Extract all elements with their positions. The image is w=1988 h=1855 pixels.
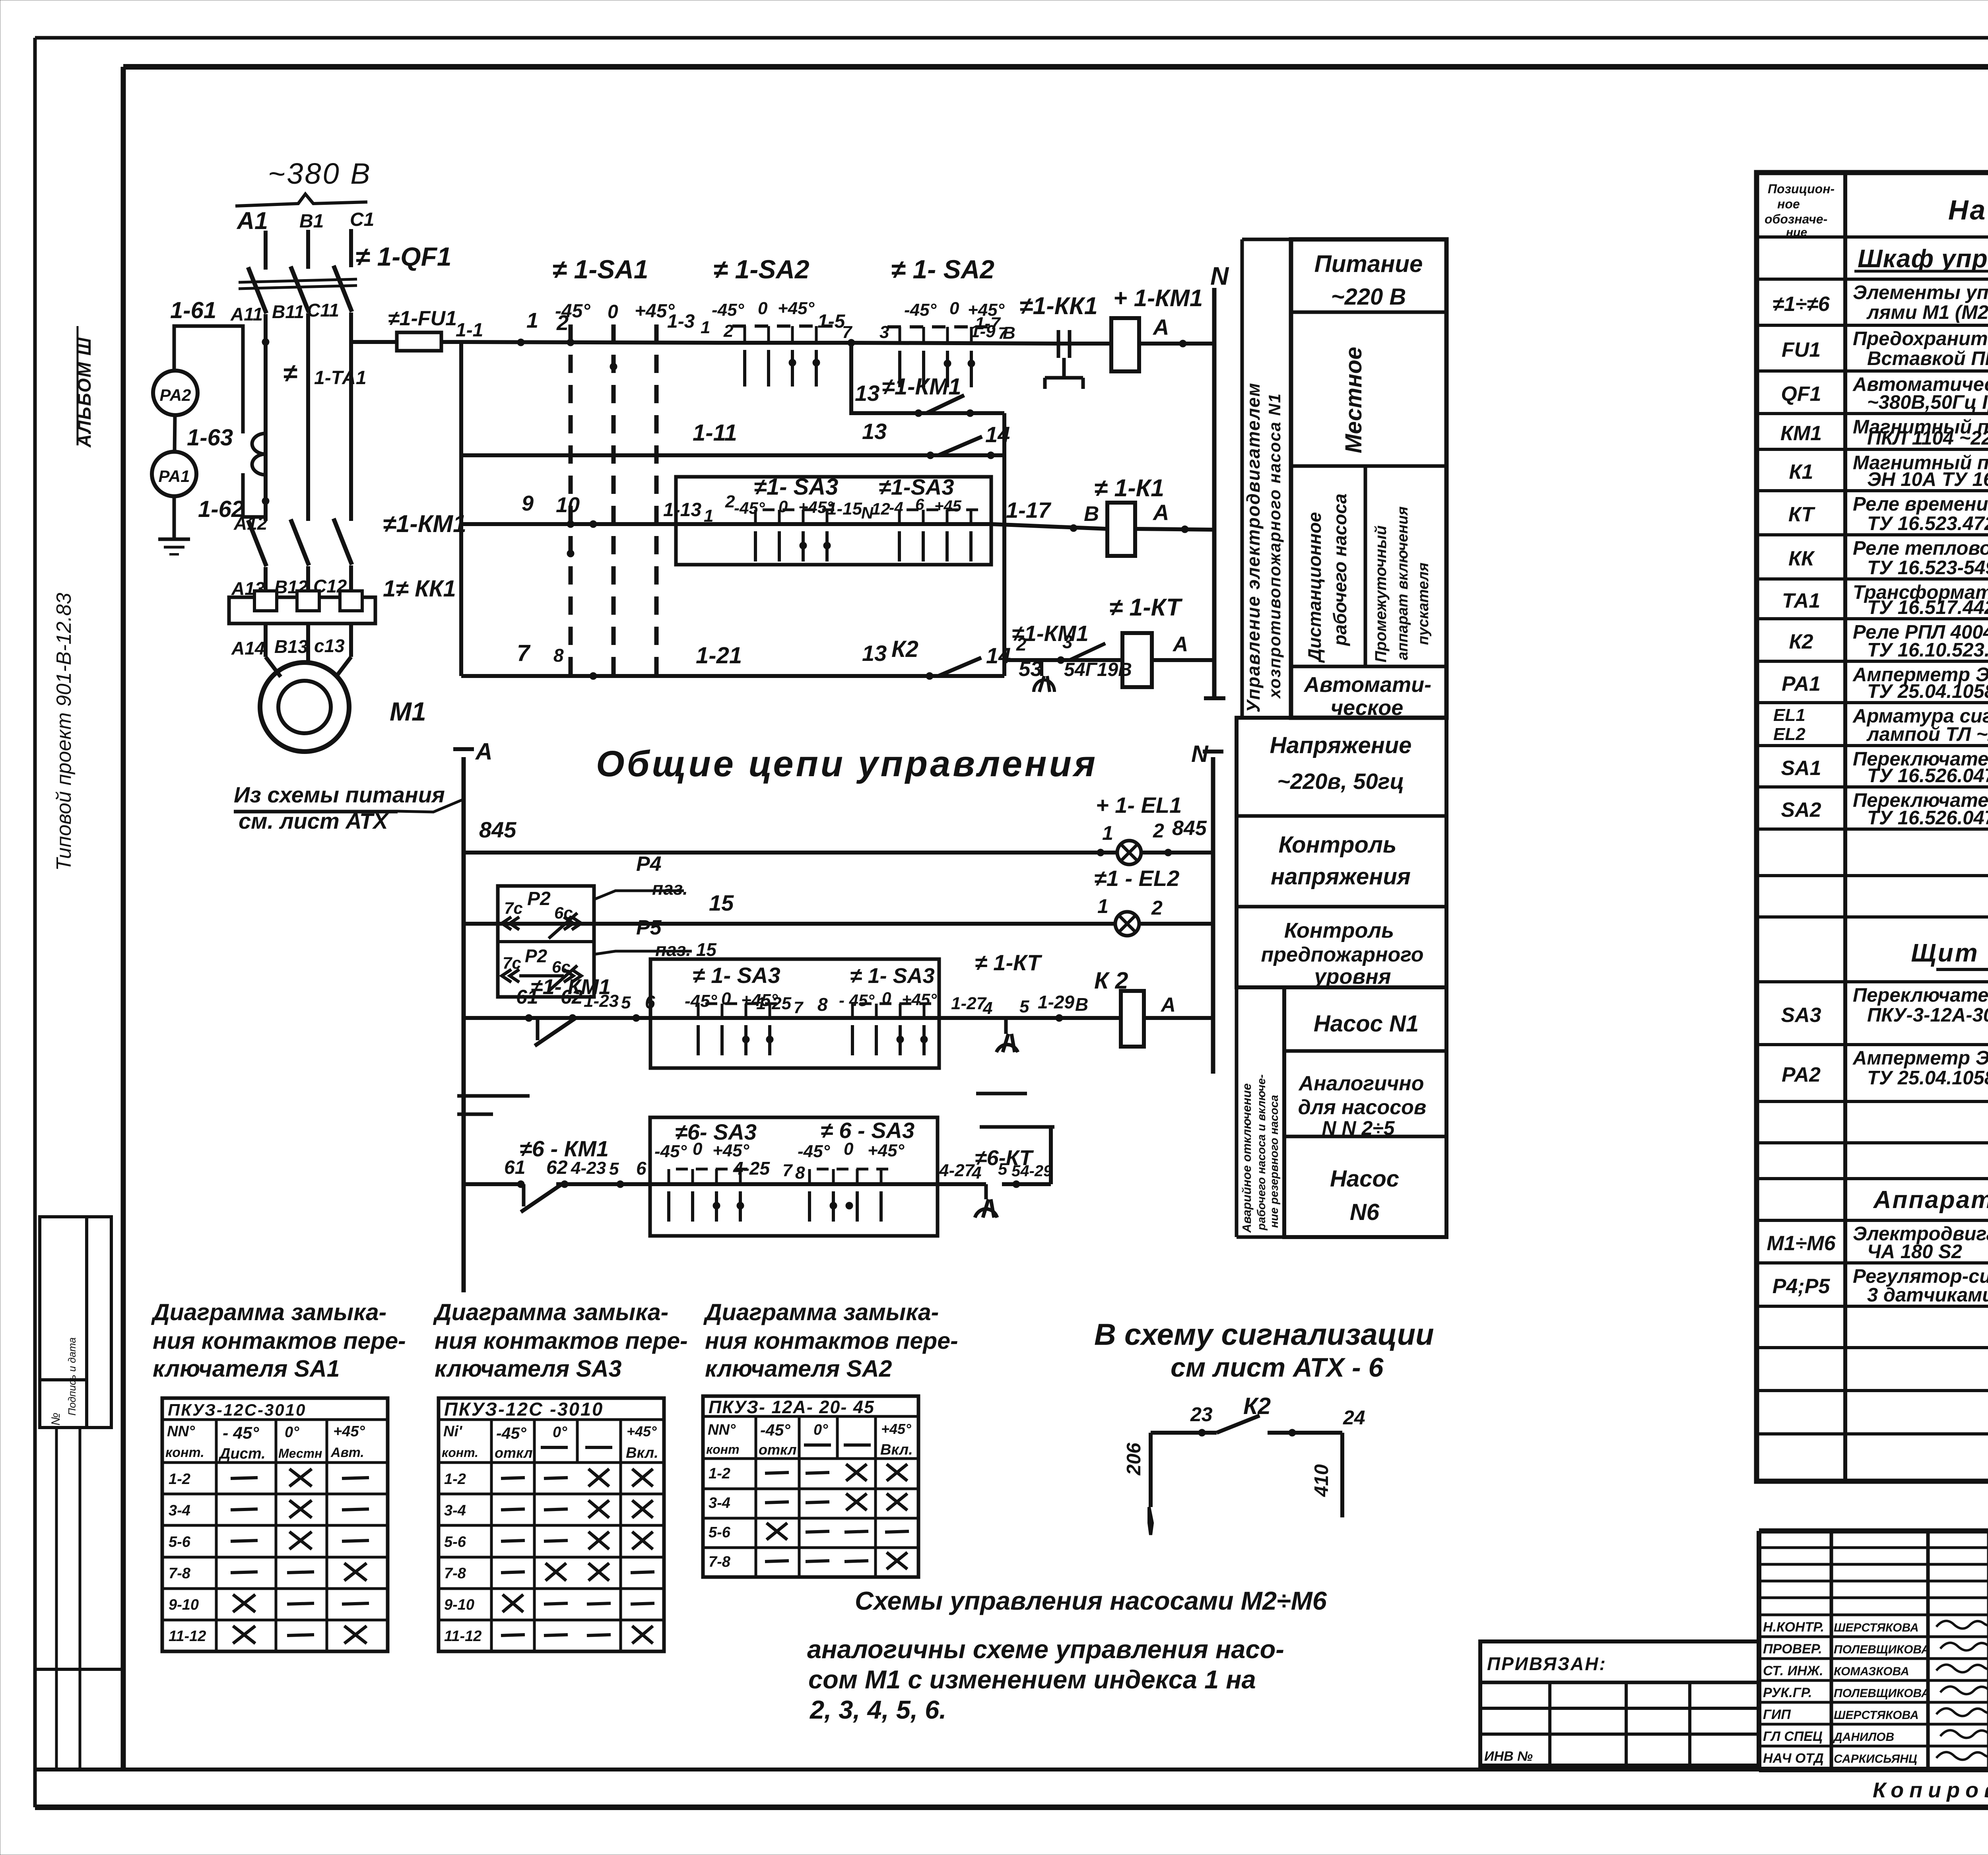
svg-text:ШЕРСТЯКОВА: ШЕРСТЯКОВА [1834,1709,1919,1722]
svg-text:3: 3 [879,322,889,342]
svg-text:СТ. ИНЖ.: СТ. ИНЖ. [1763,1663,1823,1678]
svg-text:С11: С11 [307,300,339,320]
svg-text:12: 12 [872,499,890,518]
svg-text:Аппаратура по месту.: Аппаратура по месту. [1873,1186,1988,1214]
svg-text:ния контактов пере-: ния контактов пере- [153,1328,406,1354]
svg-text:-45°: -45° [555,301,590,322]
svg-text:КОМАЗКОВА: КОМАЗКОВА [1834,1665,1909,1678]
svg-text:Авт.: Авт. [330,1445,364,1460]
svg-text:Вкл.: Вкл. [626,1445,658,1461]
svg-text:КТ: КТ [1788,503,1816,526]
svg-text:0°: 0° [285,1424,299,1441]
svg-text:ТУ 16.526.047-74: ТУ 16.526.047-74 [1867,765,1988,787]
svg-text:ПРОВЕР.: ПРОВЕР. [1763,1641,1822,1657]
svg-text:7: 7 [782,1161,793,1180]
svg-text:9: 9 [522,491,534,515]
svg-text:Местн: Местн [278,1446,322,1461]
svg-text:для насосов: для насосов [1298,1096,1427,1119]
svg-text:SА2: SА2 [1781,798,1821,822]
svg-text:Р5: Р5 [636,916,662,939]
svg-text:С1: С1 [350,209,374,230]
svg-text:Диаграмма замыка-: Диаграмма замыка- [151,1299,386,1325]
svg-text:4-25: 4-25 [733,1158,770,1179]
svg-text:1-5: 1-5 [817,311,846,332]
svg-text:ние: ние [1786,226,1807,239]
svg-text:РА2: РА2 [1782,1063,1821,1086]
svg-text:845: 845 [1172,817,1207,840]
svg-text:1-3: 1-3 [667,311,695,332]
svg-text:Реле тепловое РТЛ 205704: Реле тепловое РТЛ 205704 [1853,538,1988,559]
svg-text:аналогичны схеме управления: аналогичны схеме управления насо- [807,1635,1284,1664]
svg-text:ИНВ №: ИНВ № [1484,1749,1533,1764]
svg-text:№: № [49,1413,62,1426]
svg-text:ЕL2: ЕL2 [1773,725,1806,744]
svg-text:лампой ТЛ ~220В ТУ16.535.681-7: лампой ТЛ ~220В ТУ16.535.681-76 [1866,724,1988,745]
svg-text:0: 0 [844,1139,854,1159]
svg-text:206: 206 [1123,1442,1145,1476]
svg-text:≠1÷≠6: ≠1÷≠6 [1773,293,1830,316]
svg-text:Управление электродвигателем: Управление электродвигателем [1243,382,1264,713]
svg-text:≠1 - ЕL2: ≠1 - ЕL2 [1094,866,1179,891]
svg-text:Р4;Р5: Р4;Р5 [1773,1275,1831,1298]
svg-text:ТУ 16.526.047-74: ТУ 16.526.047-74 [1867,807,1988,829]
svg-text:5: 5 [998,1160,1008,1178]
svg-text:Диаграмма замыка-: Диаграмма замыка- [433,1299,668,1325]
svg-text:Регулятор-сигнализатор уровня: Регулятор-сигнализатор уровня с [1853,1266,1988,1287]
svg-text:откл: откл [759,1441,797,1458]
svg-text:Переключатель универсальный: Переключатель универсальный [1853,985,1988,1006]
svg-text:0°: 0° [813,1422,828,1438]
svg-text:P2: P2 [527,888,551,909]
svg-text:Предохранитель ПРС -6УЗ с пла: Предохранитель ПРС -6УЗ с плавкой [1853,328,1988,350]
svg-text:см лист АТХ - 6: см лист АТХ - 6 [1171,1352,1384,1383]
svg-text:1-9: 1-9 [970,322,996,341]
svg-text:5: 5 [609,1159,619,1179]
svg-text:пускателя: пускателя [1415,563,1432,645]
svg-text:Nіʹ: Nіʹ [443,1423,463,1440]
svg-text:~220в, 50гц: ~220в, 50гц [1277,769,1404,794]
svg-text:ГЛ СПЕЦ: ГЛ СПЕЦ [1763,1729,1823,1744]
svg-text:Вкл.: Вкл. [880,1441,913,1458]
svg-text:ключателя SА2: ключателя SА2 [705,1356,892,1382]
svg-text:К2: К2 [1243,1393,1271,1419]
svg-text:ПКУЗ- 12А- 20- 45: ПКУЗ- 12А- 20- 45 [709,1397,875,1417]
svg-text:SА3: SА3 [1781,1004,1821,1027]
svg-text:SА1: SА1 [1781,757,1821,780]
svg-text:≠1-FU1: ≠1-FU1 [388,307,457,330]
svg-text:3-4: 3-4 [169,1502,190,1519]
svg-text:≠ 1- SA2: ≠ 1- SA2 [891,254,994,284]
svg-text:1: 1 [701,318,710,337]
svg-text:откл.: откл. [495,1445,537,1461]
svg-text:Позицион-: Позицион- [1768,182,1835,196]
svg-text:+45°: +45° [881,1421,911,1437]
svg-text:Из схемы питания: Из схемы питания [234,782,445,807]
svg-text:FU1: FU1 [1782,338,1821,361]
svg-text:конт.: конт. [165,1445,204,1460]
svg-text:напряжения: напряжения [1271,864,1411,890]
svg-text:Насос: Насос [1330,1166,1399,1192]
svg-text:Вставкой ПВД1-443: Вставкой ПВД1-443 [1867,348,1988,369]
svg-text:Амперметр Э-377 50А. кл.: Амперметр Э-377 50А. кл. 1.5 50ГЦ [1852,1047,1988,1069]
svg-text:ДАНИЛОВ: ДАНИЛОВ [1833,1731,1894,1744]
svg-text:4-27: 4-27 [939,1161,975,1180]
svg-text:~220 В: ~220 В [1331,284,1406,310]
svg-text:Р4: Р4 [636,853,662,876]
svg-text:Дист.: Дист. [218,1445,266,1462]
svg-text:ПРИВЯЗАН:: ПРИВЯЗАН: [1487,1653,1607,1674]
svg-text:1-63: 1-63 [187,425,233,451]
svg-text:5-6: 5-6 [169,1534,191,1550]
svg-text:7: 7 [794,998,804,1017]
svg-text:11-12: 11-12 [444,1628,481,1645]
svg-text:1-2: 1-2 [709,1465,730,1482]
svg-text:0: 0 [949,299,959,318]
svg-text:КК: КК [1788,547,1815,570]
svg-text:1: 1 [1097,895,1109,917]
svg-text:1-27: 1-27 [951,994,987,1013]
svg-text:13: 13 [862,419,887,444]
svg-text:предпожарного: предпожарного [1261,943,1423,966]
svg-text:N6: N6 [1350,1199,1380,1225]
svg-text:9-10: 9-10 [444,1597,474,1613]
svg-text:А: А [1172,633,1188,656]
svg-text:+45°: +45° [902,990,937,1009]
svg-text:РА1: РА1 [158,467,190,486]
svg-text:2: 2 [1151,897,1163,919]
svg-text:7-8: 7-8 [444,1565,466,1582]
svg-text:Щит оператора: Щит оператора [1911,938,1988,967]
svg-text:53: 53 [1019,657,1042,681]
svg-text:+ 1- ЕL1: + 1- ЕL1 [1096,793,1182,818]
svg-text:~380В,50Гц Iрасц.50А,Iотс. 12I: ~380В,50Гц Iрасц.50А,Iотс. 12Iрасц. [1867,392,1988,413]
svg-text:НАЧ ОТД: НАЧ ОТД [1763,1751,1824,1766]
svg-text:61: 61 [504,1157,525,1178]
svg-text:≠ 1-К1: ≠ 1-К1 [1094,474,1164,501]
svg-text:Промежуточный: Промежуточный [1372,525,1390,662]
svg-text:Шкаф управления Ш1 (Ш2÷Ш6): Шкаф управления Ш1 (Ш2÷Ш6) [1858,244,1988,273]
svg-text:≠ 1- SА3: ≠ 1- SА3 [693,963,780,988]
svg-text:конт: конт [706,1442,740,1457]
svg-text:14: 14 [986,643,1011,668]
svg-text:410: 410 [1311,1464,1332,1497]
svg-text:Автомати-: Автомати- [1303,673,1431,697]
svg-text:- 45°: - 45° [223,1424,259,1443]
svg-text:Аналогично: Аналогично [1298,1072,1424,1095]
svg-text:паз. 15: паз. 15 [655,939,717,960]
svg-text:А1: А1 [236,207,268,234]
svg-text:САРКИСЬЯНЦ: САРКИСЬЯНЦ [1834,1752,1917,1766]
svg-text:≠ 6 - SА3: ≠ 6 - SА3 [821,1118,914,1143]
svg-text:А11: А11 [230,304,263,324]
svg-text:N: N [1210,262,1229,290]
svg-text:NN°: NN° [167,1423,195,1440]
svg-text:Контроль: Контроль [1284,919,1394,942]
svg-text:ПКУЗ-12С -3010: ПКУЗ-12С -3010 [444,1399,604,1420]
svg-text:62: 62 [561,986,583,1008]
svg-text:1-29: 1-29 [1038,992,1074,1012]
svg-text:М1: М1 [390,697,426,726]
svg-text:1≠ КК1: 1≠ КК1 [383,576,456,602]
svg-text:≠ 1-SA1: ≠ 1-SA1 [552,254,648,284]
svg-text:P2: P2 [525,946,547,966]
svg-text:23: 23 [1190,1403,1213,1426]
svg-text:А: А [1160,993,1176,1016]
svg-text:ТУ 16.517.442-75: ТУ 16.517.442-75 [1867,597,1988,618]
svg-text:ПОЛЕВЩИКОВА: ПОЛЕВЩИКОВА [1834,1687,1930,1700]
svg-text:ТУ 25.04.1058-76: ТУ 25.04.1058-76 [1867,1067,1988,1089]
svg-text:3 датчиками ЭРСУ-3.: 3 датчиками ЭРСУ-3. [1867,1284,1988,1306]
svg-text:ние резервного насоса: ние резервного насоса [1268,1095,1281,1228]
svg-text:NN°: NN° [708,1422,736,1438]
svg-text:11-12: 11-12 [169,1628,206,1645]
svg-text:1-1: 1-1 [456,320,483,341]
svg-text:+45°: +45° [627,1423,657,1439]
svg-text:3-4: 3-4 [709,1495,730,1511]
svg-text:ПОЛЕВЩИКОВА: ПОЛЕВЩИКОВА [1834,1643,1930,1656]
svg-text:РА1: РА1 [1782,672,1821,695]
svg-text:8: 8 [553,645,564,666]
svg-text:7-8: 7-8 [169,1565,191,1582]
svg-text:-45°: -45° [798,1142,830,1161]
svg-text:ТУ 16.10.523.554-78.: ТУ 16.10.523.554-78. [1867,639,1988,661]
svg-text:аппарат включения: аппарат включения [1394,507,1411,660]
svg-text:1: 1 [526,309,538,332]
svg-text:-45°: -45° [712,300,744,320]
svg-text:≠1-КМ1: ≠1-КМ1 [383,510,466,537]
svg-text:Насос N1: Насос N1 [1314,1011,1419,1037]
svg-text:К2: К2 [1789,630,1813,653]
svg-text:1-11: 1-11 [693,420,737,446]
svg-text:24: 24 [1343,1406,1365,1429]
svg-text:ГИП: ГИП [1763,1707,1791,1722]
svg-text:1-ТА1: 1-ТА1 [314,367,367,388]
svg-text:ТУ 25.04.1058-76: ТУ 25.04.1058-76 [1867,681,1988,702]
svg-text:N: N [1191,741,1209,767]
svg-text:Н.КОНТР.: Н.КОНТР. [1763,1620,1824,1635]
svg-text:0: 0 [758,299,768,318]
svg-text:54-29: 54-29 [1011,1162,1052,1180]
svg-text:1-2: 1-2 [444,1471,466,1488]
svg-text:сом М1 с изменением индекс: сом М1 с изменением индекса 1 на [808,1665,1256,1694]
svg-text:≠1-КК1: ≠1-КК1 [1019,292,1098,319]
svg-text:-45°: -45° [654,1142,687,1161]
svg-text:КМ1: КМ1 [1780,422,1822,445]
svg-text:-45°: -45° [734,499,765,517]
svg-text:1-21: 1-21 [696,643,742,668]
svg-text:≠1- SА3: ≠1- SА3 [754,474,838,500]
svg-text:10: 10 [556,493,580,517]
svg-text:5: 5 [1019,997,1029,1016]
svg-text:ТА1: ТА1 [1782,589,1820,612]
svg-text:≠ 1-КТ: ≠ 1-КТ [1109,594,1183,621]
svg-text:ШЕРСТЯКОВА: ШЕРСТЯКОВА [1834,1621,1919,1634]
svg-text:Дистанционное: Дистанционное [1304,512,1325,663]
svg-text:5-6: 5-6 [709,1524,731,1541]
svg-text:Питание: Питание [1314,251,1423,277]
svg-text:8: 8 [795,1163,805,1183]
svg-text:845: 845 [479,817,516,842]
svg-text:0: 0 [693,1139,703,1159]
svg-text:В схему сигнализации: В схему сигнализации [1094,1318,1434,1352]
svg-text:8: 8 [817,994,828,1015]
svg-text:А: А [1152,315,1169,340]
svg-text:лями М1 (М2÷М6): лями М1 (М2÷М6) [1866,302,1988,323]
svg-text:0: 0 [608,301,618,322]
svg-text:2: 2 [1153,820,1164,842]
svg-text:≠ 1-SA2: ≠ 1-SA2 [713,254,810,284]
svg-text:9-10: 9-10 [169,1597,199,1613]
svg-text:≠: ≠ [283,359,297,387]
svg-text:конт.: конт. [442,1445,478,1460]
svg-text:-45°: -45° [760,1421,790,1439]
svg-text:7: 7 [517,640,531,666]
svg-text:К1: К1 [1789,460,1813,484]
svg-text:В13: В13 [274,636,308,657]
svg-text:≠1-КМ1: ≠1-КМ1 [1012,621,1089,646]
svg-text:ТУ 16.523.472-74: ТУ 16.523.472-74 [1867,513,1988,534]
svg-text:Диаграмма замыка-: Диаграмма замыка- [703,1299,939,1325]
svg-text:ния контактов пере-: ния контактов пере- [435,1328,688,1354]
svg-text:+45°: +45° [868,1141,905,1160]
svg-text:В1: В1 [299,211,324,232]
svg-text:13: 13 [862,641,887,666]
svg-text:ключателя SА1: ключателя SА1 [153,1356,340,1382]
svg-text:обозначе-: обозначе- [1765,212,1827,226]
svg-text:1-15: 1-15 [827,499,862,519]
svg-text:ПКУ-3-12А-3016: ПКУ-3-12А-3016 [1867,1004,1988,1026]
svg-text:7с: 7с [504,899,523,917]
svg-text:≠ 1-QF1: ≠ 1-QF1 [355,242,452,271]
svg-text:ПКУЗ-12С-3010: ПКУЗ-12С-3010 [168,1400,306,1419]
svg-text:15: 15 [709,890,734,915]
svg-text:РА2: РА2 [159,386,191,404]
svg-text:1-23: 1-23 [584,991,619,1011]
svg-text:рабочего насоса и включе-: рабочего насоса и включе- [1255,1074,1268,1231]
svg-text:Местное: Местное [1341,347,1367,453]
svg-text:4-23: 4-23 [571,1158,606,1178]
svg-text:1-17: 1-17 [1006,497,1052,523]
svg-text:≠ 1- SА3: ≠ 1- SА3 [850,964,935,988]
svg-text:Аварийное отключение: Аварийное отключение [1240,1083,1254,1233]
svg-text:А14: А14 [231,638,265,658]
svg-text:1: 1 [1102,822,1113,844]
svg-text:- 45°: - 45° [839,991,875,1010]
svg-text:Напряжение: Напряжение [1270,732,1412,758]
svg-text:-4: -4 [889,499,903,517]
svg-text:2: 2 [723,321,734,341]
svg-text:-45°: -45° [904,300,937,320]
svg-text:Копировала Логинова: Копировала Логинова [1873,1778,1988,1802]
svg-text:Схемы управления насосами М: Схемы управления насосами М2÷М6 [855,1586,1327,1615]
svg-text:Типовой проект 901-В-12.83: Типовой проект 901-В-12.83 [52,593,76,871]
svg-text:0°: 0° [553,1424,567,1441]
svg-text:5-6: 5-6 [444,1534,466,1550]
svg-text:Реле времени РВП 72-332300: Реле времени РВП 72-332300 [1853,493,1988,515]
svg-text:62: 62 [546,1157,568,1178]
svg-text:ТУ 16.523-549-78.: ТУ 16.523-549-78. [1867,557,1988,579]
svg-text:В11: В11 [272,301,304,322]
svg-text:М1÷М6: М1÷М6 [1767,1232,1836,1255]
svg-text:А: А [1152,500,1169,525]
svg-text:В: В [1075,994,1088,1015]
svg-text:N N 2÷5: N N 2÷5 [1322,1117,1395,1139]
svg-text:7-8: 7-8 [709,1554,731,1570]
svg-text:ключателя SА3: ключателя SА3 [435,1356,622,1382]
svg-text:+45°: +45° [778,299,815,318]
svg-text:ЕL1: ЕL1 [1773,705,1806,725]
svg-text:4: 4 [982,998,992,1018]
svg-text:ЭН 10А ТУ 16-52Б 437-78: ЭН 10А ТУ 16-52Б 437-78 [1867,469,1988,490]
svg-text:13: 13 [855,381,879,406]
svg-text:1-2: 1-2 [169,1471,190,1488]
svg-text:ПКЛ 1104 ~220В Э Н63А ТУ16.526: ПКЛ 1104 ~220В Э Н63А ТУ16.526.431-78. [1867,427,1988,449]
svg-text:хозпротивопожарного насоса N: хозпротивопожарного насоса N1 [1265,393,1284,699]
svg-text:рабочего насоса: рабочего насоса [1330,493,1350,647]
svg-text:-45°: -45° [685,991,717,1011]
svg-text:В: В [1084,502,1099,526]
svg-text:уровня: уровня [1313,965,1391,989]
svg-text:В: В [1003,323,1015,343]
svg-text:РУК.ГР.: РУК.ГР. [1763,1685,1812,1700]
svg-text:3-4: 3-4 [444,1502,466,1519]
svg-text:≠ 1-КТ: ≠ 1-КТ [975,950,1043,975]
svg-text:Элементы управления электродви: Элементы управления электродвигате- [1853,282,1988,303]
svg-text:1-61: 1-61 [170,297,216,323]
svg-text:Общие цепи управления: Общие цепи управления [596,744,1098,784]
svg-text:+ 1-КМ1: + 1-КМ1 [1113,285,1203,311]
svg-text:А: А [475,738,493,765]
svg-text:-45°: -45° [496,1424,526,1442]
svg-text:1-13: 1-13 [663,499,701,521]
svg-text:6: 6 [636,1158,646,1179]
svg-text:+45°: +45° [712,1141,749,1160]
svg-text:с13: с13 [314,635,345,656]
svg-text:К2: К2 [891,636,918,662]
svg-text:паз.: паз. [652,878,688,899]
svg-text:5: 5 [621,993,631,1012]
svg-text:ЧА 180 S2: ЧА 180 S2 [1867,1241,1962,1263]
svg-text:1-25: 1-25 [756,994,792,1013]
svg-text:Контроль: Контроль [1279,832,1397,858]
svg-text:~380 В: ~380 В [268,157,372,190]
svg-text:ное: ное [1777,197,1800,211]
svg-text:Наименование: Наименование [1948,194,1988,225]
svg-text:QF1: QF1 [1781,383,1821,406]
svg-text:Подпись и дата: Подпись и дата [66,1337,78,1416]
svg-text:2, 3, 4, 5, 6.: 2, 3, 4, 5, 6. [809,1695,946,1724]
svg-text:ния контактов пере-: ния контактов пере- [705,1328,958,1354]
svg-text:+45°: +45° [333,1423,365,1440]
svg-text:≠1-КМ1: ≠1-КМ1 [882,374,961,400]
